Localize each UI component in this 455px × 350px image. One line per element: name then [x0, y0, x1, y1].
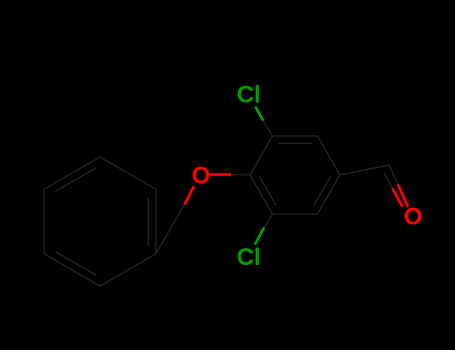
- wire: right ring inner double bond C3-C2: [279, 143, 311, 145]
- carbon skeleton bonds: [44, 120, 398, 287]
- wire: C5 to Cl black half: [264, 214, 273, 229]
- wire: right ring inner double bond C5-C4: [260, 177, 276, 205]
- svg-text:O: O: [404, 204, 423, 231]
- wire: C3 to Cl black half: [263, 120, 273, 137]
- bond: O-C4 red half: [211, 173, 230, 176]
- bond: C=O inner line red half: [393, 190, 402, 207]
- wire: C1 to aldehyde carbon: [340, 165, 389, 175]
- wire: right ring edge C5-C4: [250, 175, 273, 214]
- wire: left ring edge V1-V2: [100, 157, 156, 189]
- bond: C3-Cl green half: [256, 108, 264, 244]
- wire: ether O to C4 black half: [230, 174, 250, 177]
- bond: O-CH2 red half: [185, 175, 408, 207]
- bond: C5-Cl green half: [256, 229, 264, 244]
- wire: C=O inner line black half: [384, 173, 393, 190]
- wire: right ring edge C3-C2: [273, 135, 318, 137]
- wire: left ring edge V6-V1: [44, 157, 100, 189]
- svg-text:Cl: Cl: [237, 244, 261, 271]
- svg-text:Cl: Cl: [237, 81, 261, 108]
- wire: right ring edge C6-C5: [273, 213, 318, 215]
- wire: right ring edge C4-C3: [250, 136, 273, 175]
- wire: left ring inner double bond V2-V3: [147, 198, 149, 244]
- wire: C=O main line black half: [389, 165, 398, 186]
- wire: left ring edge V2-V3: [155, 189, 157, 254]
- wire: left ring edge V4-V5: [44, 254, 100, 286]
- wire: left ring inner double bond V6-V1: [56, 168, 96, 191]
- svg-text:O: O: [192, 163, 211, 190]
- wire: right ring edge C2-C1: [318, 136, 341, 175]
- wire: left ring edge V5-V6: [43, 189, 45, 254]
- bond: C=O main line red half: [398, 186, 407, 206]
- wire: right ring edge C1-C6: [318, 175, 341, 214]
- wire: left ring edge V3-V4: [100, 254, 156, 286]
- wire: right ring inner double bond C1-C6: [314, 177, 330, 205]
- wire: benzyl CH2 to ether O black half: [156, 204, 185, 254]
- wire: left ring inner double bond V4-V5: [56, 252, 96, 275]
